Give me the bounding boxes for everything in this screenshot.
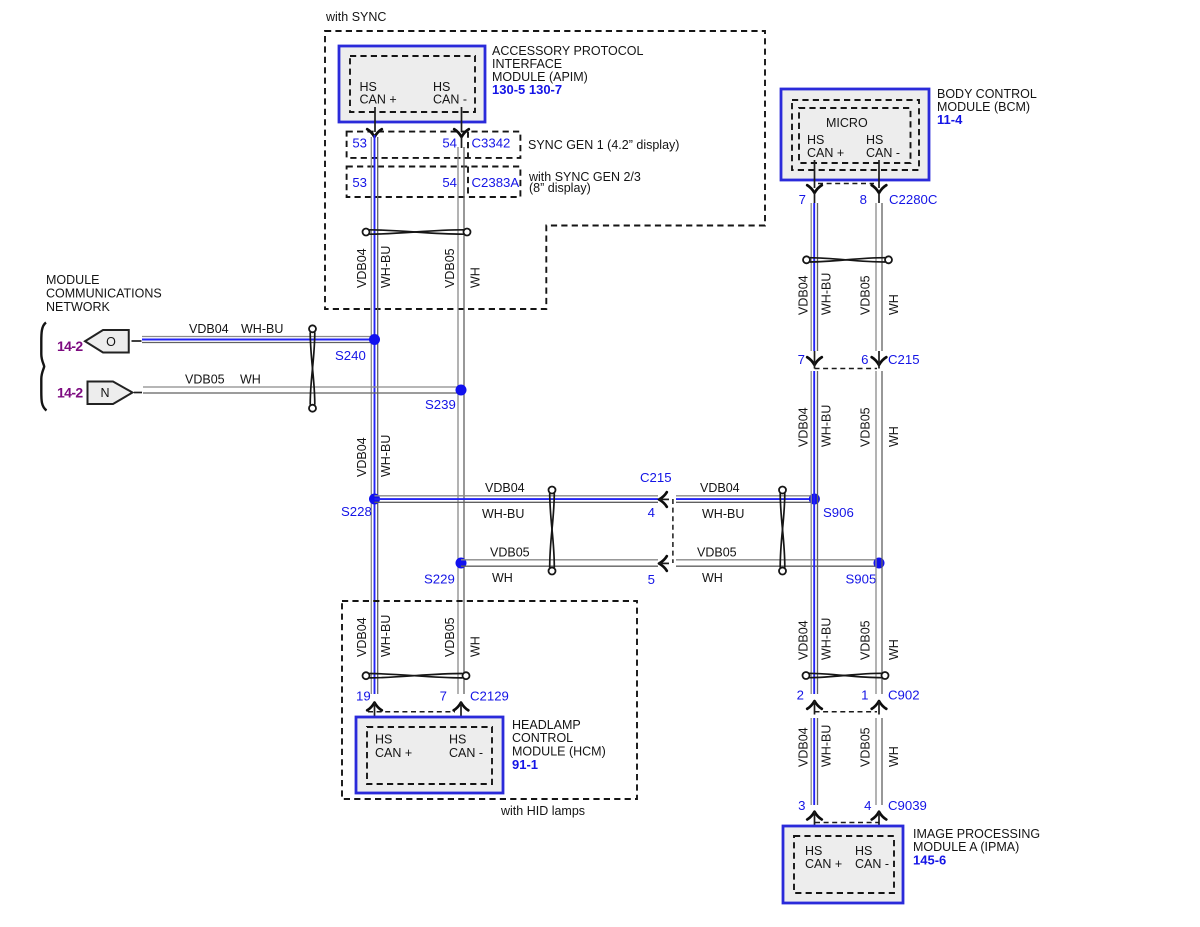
arrow left C215 pin 4: [659, 492, 667, 507]
svg-text:C2383A: C2383A: [472, 175, 520, 190]
arrow down pin 6 C215: [872, 357, 887, 365]
APIM title: [492, 44, 643, 97]
svg-text:VDB04: VDB04: [189, 322, 229, 336]
svg-text:7: 7: [440, 689, 447, 704]
arrow up pin 1 C902: [872, 701, 887, 709]
svg-text:S905: S905: [846, 572, 877, 587]
svg-text:HEADLAMP: HEADLAMP: [512, 718, 581, 732]
svg-text:O: O: [106, 335, 116, 349]
svg-text:SYNC GEN 1 (4.2” display): SYNC GEN 1 (4.2” display): [528, 138, 679, 152]
twisted pair symbol T6: [363, 672, 470, 679]
svg-text:WH-BU: WH-BU: [241, 322, 283, 336]
svg-text:VDB04: VDB04: [700, 481, 740, 495]
svg-text:S240: S240: [335, 348, 366, 363]
arrow up pin 3 C9039: [807, 812, 822, 820]
wire W3 seg2: [811, 371, 817, 694]
brace: [41, 323, 46, 411]
splice S240: [369, 334, 380, 345]
splice S229: [456, 558, 467, 569]
wire W4 seg3: [876, 718, 882, 805]
svg-text:HS: HS: [805, 844, 822, 858]
svg-text:WH-BU: WH-BU: [379, 435, 393, 477]
with HID lamps dashed box: [342, 601, 637, 799]
svg-text:VDB04: VDB04: [797, 727, 811, 767]
svg-text:VDB04: VDB04: [355, 248, 369, 288]
splice S239: [456, 385, 467, 396]
svg-text:54: 54: [442, 175, 457, 190]
svg-text:CAN +: CAN +: [805, 857, 842, 871]
module IPMA box: [783, 826, 903, 903]
svg-text:VDB04: VDB04: [355, 437, 369, 477]
svg-text:145-6: 145-6: [913, 853, 946, 868]
svg-text:with SYNC: with SYNC: [325, 10, 386, 24]
svg-text:VDB04: VDB04: [485, 481, 525, 495]
svg-text:CAN +: CAN +: [375, 746, 412, 760]
wire H3 VDB04 WH-BU horizontal left segment S228 to C215: [375, 496, 659, 503]
svg-text:53: 53: [352, 175, 367, 190]
arrow down pin 8 C2280C: [872, 185, 887, 193]
svg-text:7: 7: [799, 192, 806, 207]
svg-text:53: 53: [352, 136, 367, 151]
wire H2 VDB05 WH horizontal from N: [143, 387, 461, 393]
svg-text:C902: C902: [888, 688, 920, 703]
svg-text:7: 7: [798, 352, 805, 367]
svg-text:WH-BU: WH-BU: [379, 615, 393, 657]
svg-text:3: 3: [798, 798, 805, 813]
svg-text:VDB05: VDB05: [185, 373, 225, 387]
svg-text:WH: WH: [887, 294, 901, 315]
svg-text:VDB04: VDB04: [797, 275, 811, 315]
APIM pin stem CAN-: [461, 107, 463, 132]
svg-text:COMMUNICATIONS: COMMUNICATIONS: [46, 287, 162, 301]
svg-text:HS: HS: [855, 844, 872, 858]
twisted pair symbol T4 vertical: [549, 487, 556, 575]
module BCM box: [781, 89, 929, 180]
APIM pin stem CAN+: [374, 107, 376, 132]
svg-text:ACCESSORY PROTOCOL: ACCESSORY PROTOCOL: [492, 44, 643, 58]
svg-text:C215: C215: [640, 470, 672, 485]
svg-text:(8” display): (8” display): [529, 181, 591, 195]
HCM title: [512, 718, 606, 772]
svg-text:HS: HS: [449, 733, 466, 747]
connector C902 dashed line: [815, 711, 878, 713]
arrow up pin 4 C9039: [872, 812, 887, 820]
svg-text:WH-BU: WH-BU: [820, 273, 834, 315]
off-page connector N: [88, 382, 143, 405]
svg-text:19: 19: [356, 689, 371, 704]
svg-text:WH: WH: [887, 426, 901, 447]
svg-text:VDB05: VDB05: [490, 546, 530, 560]
arrow up pin 19 C2129: [367, 703, 382, 711]
twisted pair symbol T2 vertical: [309, 325, 316, 411]
svg-text:IMAGE PROCESSING: IMAGE PROCESSING: [913, 827, 1040, 841]
splice S906: [809, 494, 820, 505]
wire W3 seg3: [811, 718, 817, 805]
svg-text:C3342: C3342: [472, 136, 511, 151]
svg-text:NETWORK: NETWORK: [46, 300, 111, 314]
svg-text:4: 4: [648, 505, 655, 520]
svg-text:BODY CONTROL: BODY CONTROL: [937, 87, 1037, 101]
svg-text:C2280C: C2280C: [889, 192, 938, 207]
svg-text:S906: S906: [823, 505, 854, 520]
svg-text:WH-BU: WH-BU: [702, 507, 744, 521]
wire H4 VDB05 WH horizontal left segment S229 to C215: [461, 560, 658, 566]
svg-text:CAN -: CAN -: [855, 857, 889, 871]
svg-text:91-1: 91-1: [512, 757, 538, 772]
arrow down pin 54 C3342: [454, 129, 469, 137]
svg-text:CAN -: CAN -: [433, 93, 467, 107]
svg-text:VDB04: VDB04: [797, 620, 811, 660]
arrow down pin 7 C215: [807, 357, 822, 365]
svg-text:VDB05: VDB05: [859, 275, 873, 315]
svg-text:HS: HS: [866, 133, 883, 147]
svg-text:C9039: C9039: [888, 798, 927, 813]
arrow up pin 2 C902: [807, 701, 822, 709]
svg-text:WH-BU: WH-BU: [482, 507, 524, 521]
svg-text:14-2: 14-2: [57, 385, 83, 401]
connector C3342 row box: [347, 132, 521, 158]
IPMA title: [913, 827, 1040, 868]
svg-text:CONTROL: CONTROL: [512, 731, 573, 745]
svg-text:VDB05: VDB05: [697, 546, 737, 560]
svg-text:C215: C215: [888, 352, 920, 367]
svg-text:HS: HS: [807, 133, 824, 147]
splice S905: [874, 558, 885, 569]
arrow down pin 7 C2280C: [807, 185, 822, 193]
BCM title: [937, 87, 1037, 127]
svg-text:WH: WH: [469, 636, 483, 657]
twisted pair symbol T5 vertical: [779, 487, 786, 575]
svg-text:CAN -: CAN -: [449, 746, 483, 760]
svg-text:WH-BU: WH-BU: [379, 246, 393, 288]
wire VDB05 vertical right upper (W4 seg1): [876, 203, 882, 351]
svg-text:S239: S239: [425, 397, 456, 412]
svg-text:VDB04: VDB04: [797, 407, 811, 447]
svg-text:VDB04: VDB04: [355, 617, 369, 657]
connector C2129 dashed line: [368, 711, 455, 713]
svg-text:WH-BU: WH-BU: [820, 618, 834, 660]
svg-text:CAN -: CAN -: [866, 146, 900, 160]
svg-text:5: 5: [648, 572, 655, 587]
wire VDB05 WH vertical left (W2): [458, 147, 464, 694]
connector C2280C dashed line: [818, 183, 874, 185]
svg-text:VDB05: VDB05: [859, 727, 873, 767]
BCM pin stems: [814, 160, 816, 188]
svg-text:CAN +: CAN +: [807, 146, 844, 160]
svg-text:WH-BU: WH-BU: [820, 405, 834, 447]
wire H4 right segment C215 to S905: [676, 560, 879, 566]
svg-text:WH-BU: WH-BU: [820, 725, 834, 767]
svg-text:WH: WH: [887, 746, 901, 767]
svg-text:WH: WH: [240, 373, 261, 387]
svg-text:1: 1: [861, 688, 868, 703]
svg-text:VDB05: VDB05: [443, 248, 457, 288]
C215 inline dashed line: [672, 499, 674, 563]
connector C2383A row box: [347, 167, 521, 198]
arrow down pin 53 C3342: [367, 129, 382, 137]
svg-text:WH: WH: [887, 639, 901, 660]
svg-text:MICRO: MICRO: [826, 116, 868, 130]
wire VDB04 vertical right upper (W3 seg1): [811, 203, 817, 351]
svg-text:S228: S228: [341, 504, 372, 519]
svg-text:with HID lamps: with HID lamps: [500, 804, 585, 818]
twisted pair symbol T7: [803, 672, 889, 679]
svg-text:130-5 130-7: 130-5 130-7: [492, 82, 562, 97]
splice S228: [369, 494, 380, 505]
svg-text:WH: WH: [492, 571, 513, 585]
svg-text:VDB05: VDB05: [859, 407, 873, 447]
connector C215 right dashed line: [815, 368, 878, 370]
with SYNC region dashed boundary: [325, 31, 765, 309]
module APIM box: [339, 46, 485, 122]
svg-text:INTERFACE: INTERFACE: [492, 57, 562, 71]
arrow left C215 pin 5: [659, 556, 667, 571]
svg-text:WH: WH: [469, 267, 483, 288]
svg-text:4: 4: [864, 798, 871, 813]
svg-text:VDB05: VDB05: [859, 620, 873, 660]
module HCM box: [356, 717, 503, 793]
off-page connector O: [85, 330, 142, 353]
arrow up pin 7 C2129: [454, 703, 469, 711]
svg-text:8: 8: [860, 192, 867, 207]
svg-text:11-4: 11-4: [937, 112, 963, 127]
svg-text:S229: S229: [424, 572, 455, 587]
svg-text:54: 54: [442, 136, 457, 151]
svg-text:6: 6: [861, 352, 868, 367]
twisted pair symbol T3: [803, 256, 892, 263]
svg-text:C2129: C2129: [470, 689, 509, 704]
svg-text:HS: HS: [375, 733, 392, 747]
svg-text:WH: WH: [702, 571, 723, 585]
svg-text:MODULE: MODULE: [46, 273, 99, 287]
wire W4 seg2: [876, 371, 882, 694]
svg-text:2: 2: [797, 688, 804, 703]
svg-text:14-2: 14-2: [57, 338, 83, 354]
wire VDB04 WH-BU vertical left (W1): [371, 135, 377, 694]
MODULE COMMUNICATIONS NETWORK title: [46, 273, 162, 314]
twisted pair symbol T1 in SYNC box: [363, 229, 471, 236]
svg-text:VDB05: VDB05: [443, 617, 457, 657]
wire H3 right segment C215 to S906: [676, 496, 814, 503]
svg-text:CAN +: CAN +: [360, 93, 397, 107]
wire H1 VDB04 WH-BU horizontal from O: [142, 337, 375, 343]
svg-text:N: N: [100, 386, 109, 400]
connector C9039 dashed line: [815, 822, 879, 824]
